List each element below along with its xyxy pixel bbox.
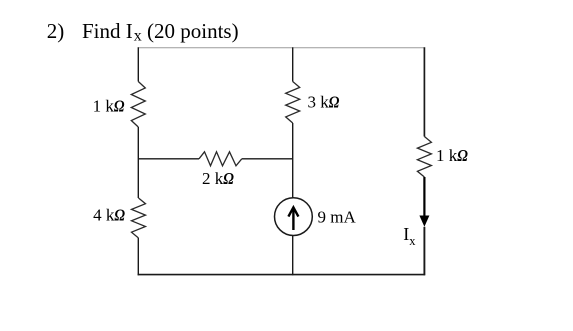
svg-text:(20 points): (20 points) bbox=[147, 19, 239, 43]
svg-text:Find I: Find I bbox=[82, 19, 133, 43]
svg-text:2): 2) bbox=[47, 19, 65, 43]
wire middle horizontal left of R2 bbox=[138, 158, 199, 160]
wire right bottom bbox=[423, 227, 425, 275]
resistor R5 1kOhm (right) bbox=[417, 137, 431, 178]
wire left-bottom bbox=[137, 238, 139, 275]
arrowhead Ix bbox=[419, 216, 429, 227]
resistor R3 3kOhm (middle) bbox=[286, 82, 300, 124]
wire left-top bbox=[137, 47, 139, 81]
svg-text:4 kΩ: 4 kΩ bbox=[93, 206, 125, 225]
wire middle vertical center bbox=[292, 123, 294, 198]
wire right with current arrow Ix bbox=[423, 177, 425, 222]
wire bottom bbox=[138, 274, 426, 276]
wire right top bbox=[423, 47, 425, 136]
svg-text:x: x bbox=[134, 27, 142, 44]
svg-text:1 kΩ: 1 kΩ bbox=[436, 146, 468, 165]
resistor R2 2kOhm (horizontal) bbox=[199, 152, 242, 166]
wire middle horizontal right of R2 bbox=[242, 158, 293, 160]
wire left-middle bbox=[137, 127, 139, 198]
wire top (gray) bbox=[138, 47, 425, 49]
resistor R4 4kOhm (left bottom) bbox=[132, 198, 146, 238]
current source I1 9mA circle bbox=[275, 198, 313, 236]
wire middle vertical bottom bbox=[292, 236, 294, 276]
svg-text:3 kΩ: 3 kΩ bbox=[308, 93, 340, 112]
resistor R1 1kOhm (left top) bbox=[131, 82, 145, 128]
wire middle vertical top bbox=[292, 47, 294, 81]
current source arrow bbox=[292, 209, 294, 230]
svg-text:1 kΩ: 1 kΩ bbox=[93, 97, 125, 116]
svg-text:2 kΩ: 2 kΩ bbox=[202, 169, 234, 188]
svg-text:9 mA: 9 mA bbox=[318, 207, 357, 226]
